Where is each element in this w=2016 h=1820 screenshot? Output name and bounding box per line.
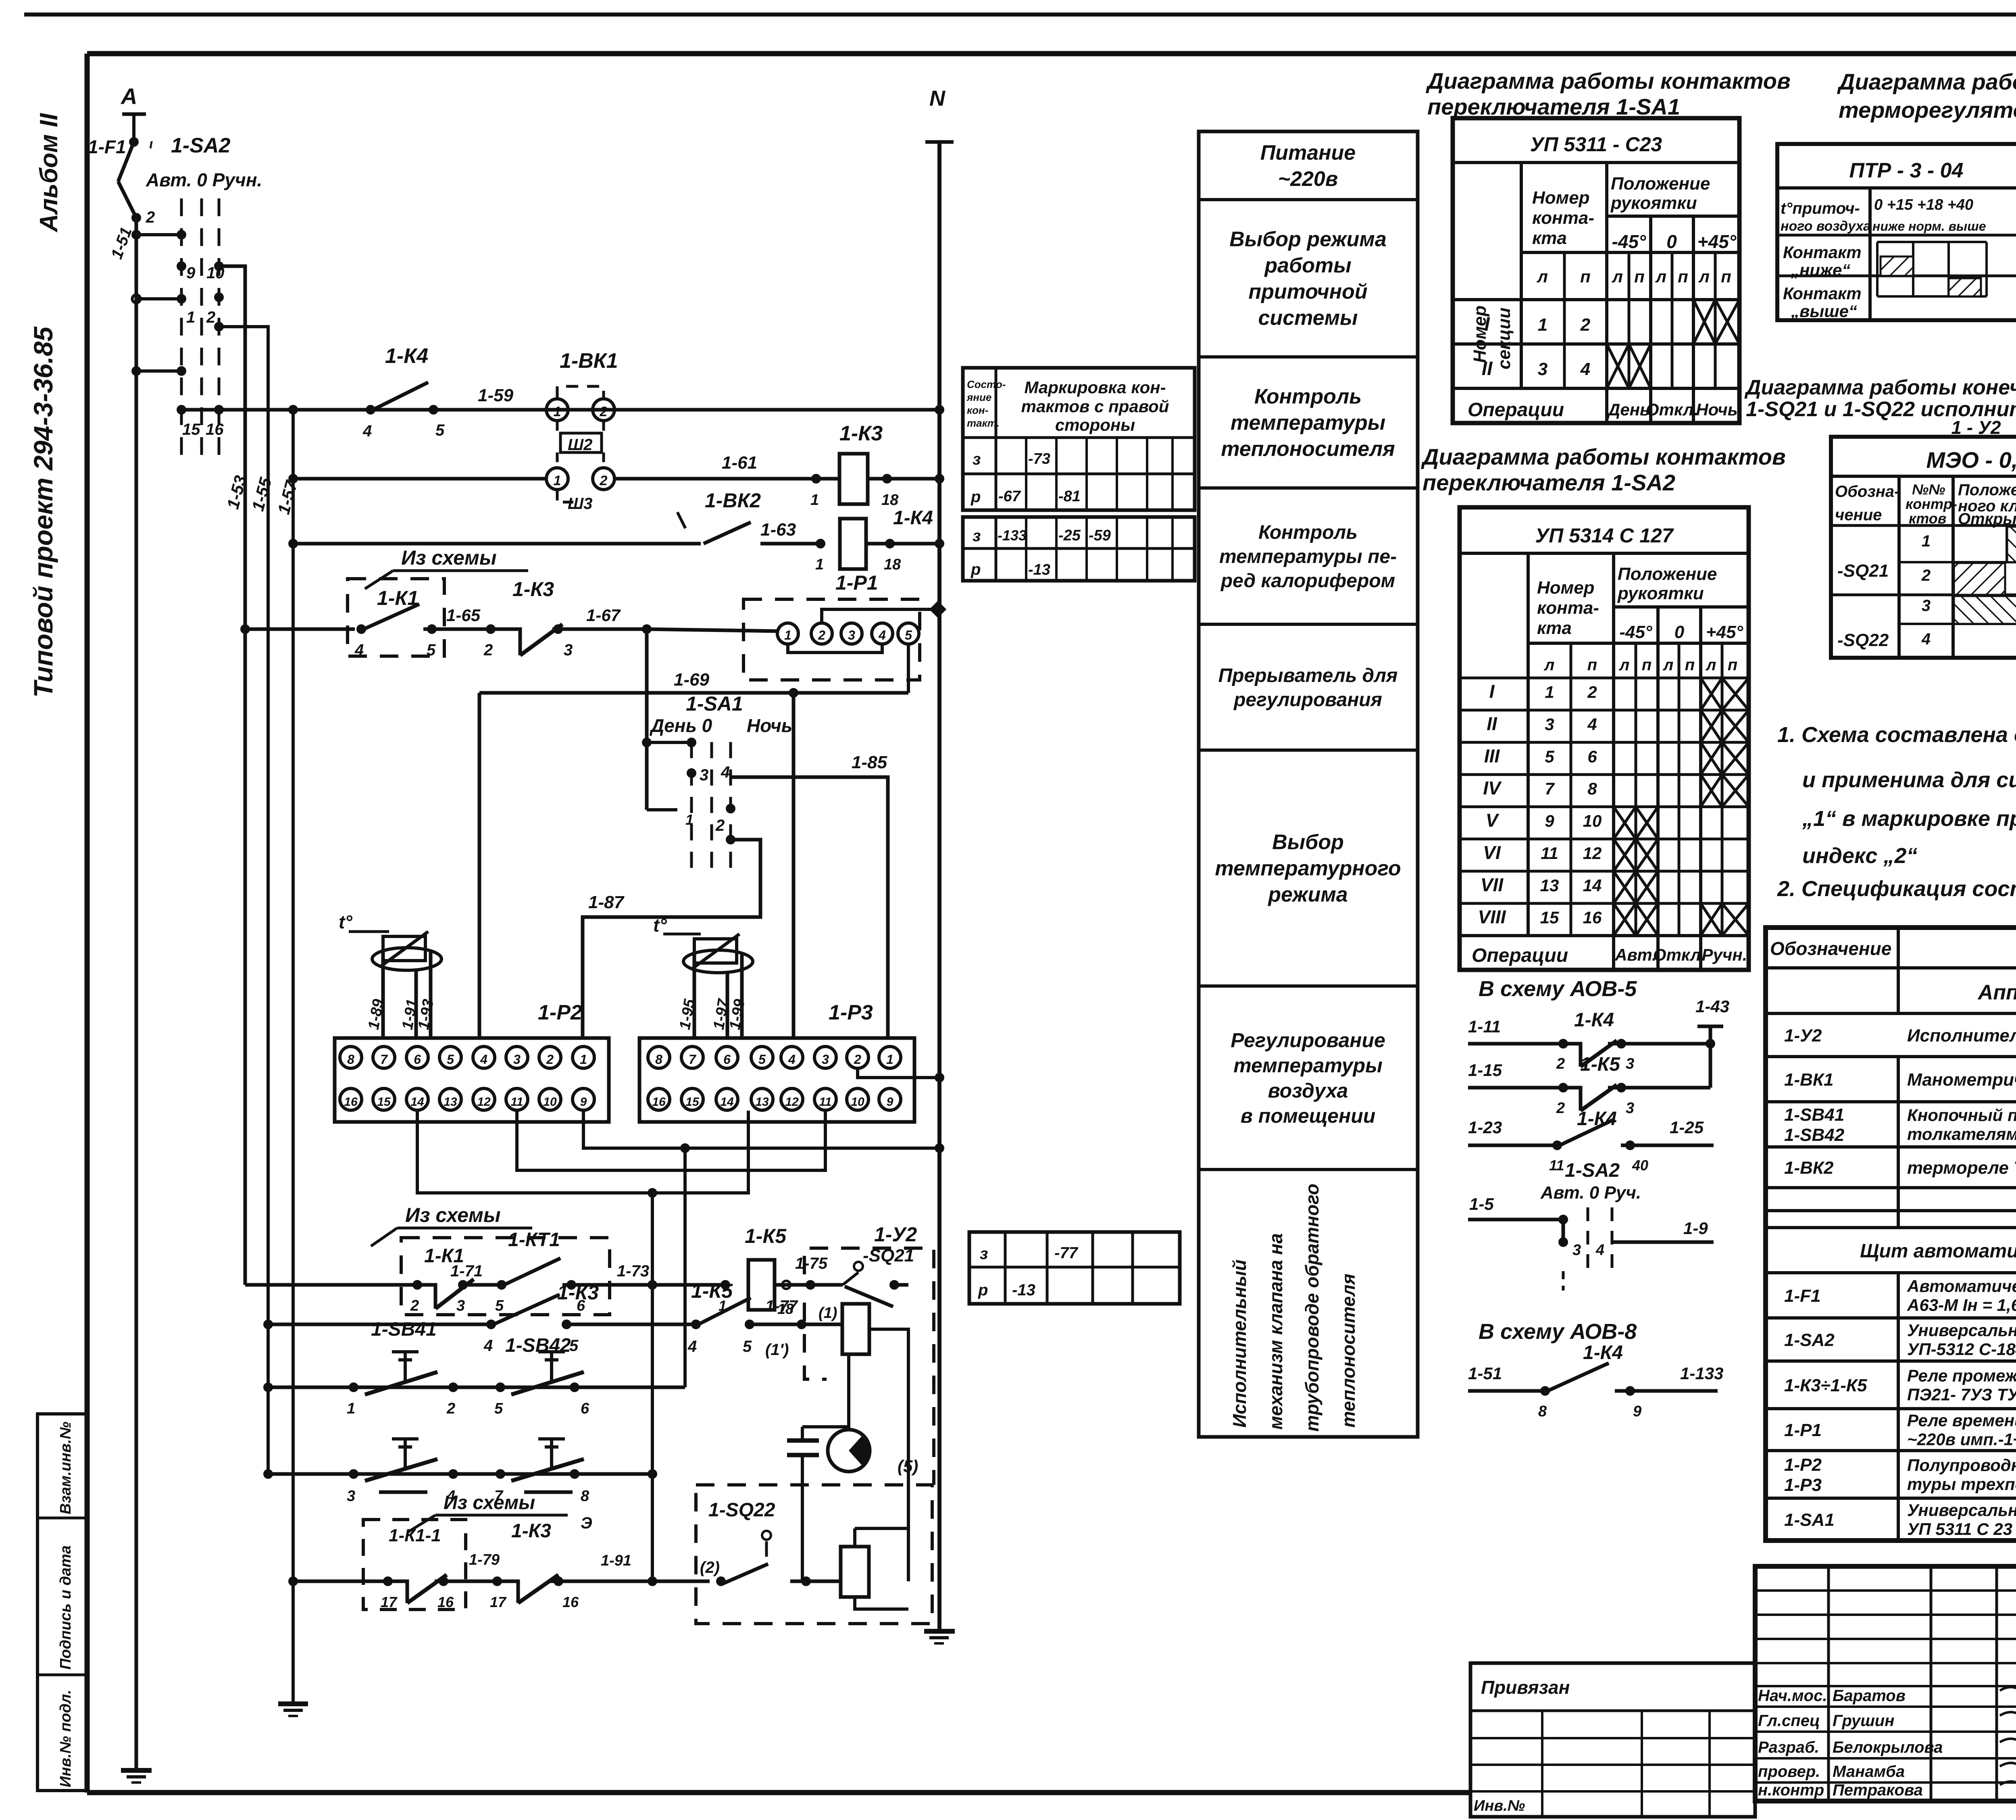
svg-text:13: 13 [444, 1095, 457, 1109]
svg-text:1: 1 [784, 628, 791, 642]
svg-text:4: 4 [788, 1052, 796, 1067]
svg-text:17: 17 [490, 1594, 507, 1610]
circuit breaker 1-F1 [118, 142, 134, 181]
svg-text:1-К4: 1-К4 [1583, 1342, 1623, 1363]
svg-text:Автоматический выключатель: Автоматический выключатель [1907, 1277, 2016, 1296]
svg-text:1-ВК1: 1-ВК1 [560, 349, 618, 373]
svg-text:1-79: 1-79 [469, 1551, 500, 1568]
svg-text:1-63: 1-63 [760, 520, 796, 540]
wire row push buttons SB41/SB42 (NO) [268, 1386, 685, 1389]
svg-text:11: 11 [1541, 844, 1558, 863]
svg-text:УП 5311 - С23: УП 5311 - С23 [1530, 133, 1662, 156]
svg-text:температуры: температуры [1231, 411, 1385, 435]
svg-text:Аппаратура по месту: Аппаратура по месту [1977, 981, 2016, 1004]
svg-text:Регулирование: Регулирование [1231, 1029, 1385, 1051]
svg-text:День: День [1607, 400, 1650, 419]
svg-text:п: п [1728, 656, 1737, 674]
svg-text:-77: -77 [1054, 1244, 1079, 1262]
svg-text:-25: -25 [1058, 527, 1081, 544]
table ПТР-3-04 (first) [1777, 144, 2016, 320]
svg-text:Баратов: Баратов [1833, 1687, 1906, 1705]
wire linking terminals 11-11 [517, 1111, 825, 1170]
svg-text:15: 15 [1540, 908, 1559, 927]
svg-text:рукоятки: рукоятки [1617, 584, 1704, 603]
svg-text:Авт. 0 Руч.: Авт. 0 Руч. [1540, 1183, 1641, 1203]
svg-text:0: 0 [1666, 231, 1677, 252]
svg-text:3: 3 [1922, 597, 1931, 615]
svg-text:п: п [1721, 267, 1731, 286]
svg-text:14: 14 [410, 1095, 424, 1109]
svg-text:-13: -13 [1028, 561, 1050, 578]
svg-text:УП-5312 С-184: УП-5312 С-184 [1907, 1340, 2016, 1359]
contact marking table B [963, 517, 1195, 581]
svg-text:УП 5311 С 23: УП 5311 С 23 [1907, 1520, 2012, 1539]
N bus ground [924, 1629, 955, 1634]
svg-text:5: 5 [495, 1297, 504, 1314]
relay contact box 1-K1 (dashed) [348, 579, 444, 656]
svg-text:~220в: ~220в [1278, 167, 1338, 191]
svg-text:4: 4 [687, 1338, 697, 1355]
hatch bars МЭО [2007, 527, 2016, 562]
svg-text:4: 4 [1587, 715, 1597, 734]
svg-text:Разраб.: Разраб. [1758, 1739, 1819, 1756]
SA2 contact row 15/16 [177, 405, 186, 415]
svg-text:1-SA2: 1-SA2 [1565, 1160, 1620, 1181]
svg-text:2: 2 [206, 309, 215, 326]
actuator winding (lower) [841, 1547, 869, 1597]
svg-text:3: 3 [848, 628, 855, 642]
contact marking table A (Маркировка контактов с правой стороны) [963, 368, 1195, 510]
svg-text:3: 3 [822, 1052, 829, 1067]
svg-text:регулирования: регулирования [1233, 689, 1382, 711]
SA2 contact row 1/2 [136, 297, 181, 300]
svg-text:чение: чение [1835, 506, 1882, 524]
svg-text:Манамба: Манамба [1833, 1763, 1905, 1780]
vertical wire 1-57 [292, 410, 295, 1704]
X marks row I (+45) [1693, 300, 1715, 344]
svg-text:1-К4: 1-К4 [1574, 1009, 1614, 1031]
svg-text:4: 4 [362, 422, 372, 440]
svg-text:1-73: 1-73 [617, 1262, 649, 1280]
svg-text:Подпись и дата: Подпись и дата [57, 1545, 74, 1670]
svg-text:Операции: Операции [1468, 399, 1564, 421]
svg-text:t°: t° [339, 911, 352, 932]
svg-text:IV: IV [1483, 778, 1502, 798]
actuator motor [828, 1430, 870, 1472]
svg-text:работы: работы [1264, 254, 1351, 277]
svg-text:Диаграмма работы контактов: Диаграмма работы контактов [1837, 69, 2016, 94]
svg-text:Гл.спец: Гл.спец [1758, 1712, 1820, 1730]
svg-text:Универсальный переключатель: Универсальный переключатель [1907, 1321, 2016, 1340]
svg-text:Маркировка кон-: Маркировка кон- [1024, 378, 1166, 397]
svg-text:1-К3÷1-К5: 1-К3÷1-К5 [1784, 1376, 1867, 1395]
svg-text:(1'): (1') [765, 1341, 789, 1359]
svg-text:1-SB41: 1-SB41 [371, 1319, 437, 1340]
svg-text:2: 2 [146, 208, 155, 226]
function description column [1199, 131, 1418, 1437]
svg-text:12: 12 [477, 1095, 491, 1109]
svg-text:индекс „2“: индекс „2“ [1802, 844, 1917, 868]
svg-text:5: 5 [427, 641, 436, 659]
svg-text:Грушин: Грушин [1833, 1712, 1894, 1730]
svg-text:4: 4 [354, 641, 364, 659]
svg-text:4: 4 [480, 1052, 487, 1067]
svg-text:температуры пе-: температуры пе- [1219, 546, 1397, 567]
svg-text:1-ВК2: 1-ВК2 [705, 489, 761, 512]
svg-text:Альбом II: Альбом II [35, 113, 63, 233]
svg-text:14: 14 [720, 1095, 734, 1109]
svg-text:1-85: 1-85 [852, 753, 887, 772]
svg-text:8: 8 [655, 1052, 662, 1067]
svg-text:17: 17 [381, 1594, 398, 1610]
svg-text:л: л [1537, 267, 1548, 286]
svg-text:13: 13 [755, 1095, 769, 1109]
vertical wire from node 2847 [683, 1148, 687, 1387]
svg-text:1-Р2: 1-Р2 [538, 1001, 582, 1024]
svg-text:1-Р3: 1-Р3 [1784, 1475, 1822, 1495]
svg-text:п: п [1634, 267, 1645, 286]
svg-text:4: 4 [1580, 359, 1590, 379]
svg-text:3: 3 [1626, 1100, 1634, 1117]
svg-text:1-SA2: 1-SA2 [1784, 1330, 1835, 1350]
svg-text:3: 3 [513, 1052, 521, 1067]
svg-text:провер.: провер. [1758, 1763, 1820, 1780]
wire row 1 (to N) [181, 408, 939, 412]
svg-text:р: р [978, 1281, 988, 1299]
svg-text:воздуха: воздуха [1268, 1079, 1348, 1102]
svg-text:1-23: 1-23 [1468, 1118, 1502, 1137]
drawing frame [87, 51, 2016, 56]
svg-text:(1): (1) [818, 1305, 837, 1322]
svg-text:Белокрылова: Белокрылова [1833, 1739, 1943, 1756]
svg-text:16: 16 [206, 421, 224, 438]
svg-text:2: 2 [410, 1297, 419, 1314]
svg-text:16: 16 [562, 1594, 579, 1610]
relay contact box 1-K1-1 (dashed) [363, 1520, 466, 1609]
svg-text:трубопроводе обратного: трубопроводе обратного [1302, 1184, 1322, 1432]
svg-text:л: л [1544, 656, 1555, 674]
svg-text:-SQ21: -SQ21 [1837, 561, 1889, 581]
svg-text:Откл.: Откл. [1653, 945, 1706, 964]
svg-text:Авт.: Авт. [1614, 945, 1657, 964]
svg-text:Из схемы: Из схемы [444, 1492, 535, 1514]
svg-text:15: 15 [685, 1095, 700, 1109]
svg-text:4: 4 [483, 1337, 493, 1355]
svg-text:18: 18 [884, 556, 901, 573]
svg-text:1-SQ22: 1-SQ22 [708, 1499, 775, 1521]
svg-text:такт.: такт. [967, 417, 1000, 429]
svg-text:н.контр: н.контр [1758, 1781, 1824, 1799]
svg-text:10: 10 [543, 1095, 557, 1109]
svg-text:конта-: конта- [1532, 208, 1594, 228]
svg-text:2: 2 [1921, 567, 1931, 584]
svg-text:1: 1 [886, 1052, 893, 1067]
svg-text:5: 5 [758, 1052, 766, 1067]
svg-text:1-87: 1-87 [588, 892, 625, 912]
table УП 5311-С23 [1453, 118, 1739, 423]
svg-text:2: 2 [715, 817, 725, 834]
svg-text:5: 5 [435, 421, 445, 439]
svg-text:1-SA2: 1-SA2 [171, 134, 230, 157]
svg-text:Ручн.: Ручн. [1702, 945, 1747, 964]
svg-text:1-F1: 1-F1 [88, 136, 126, 157]
штамп left grid [1827, 1566, 1830, 1801]
svg-text:t°приточ-: t°приточ- [1781, 200, 1860, 217]
svg-text:1-F1: 1-F1 [1784, 1286, 1820, 1306]
svg-text:10: 10 [1583, 811, 1602, 830]
svg-text:5: 5 [494, 1400, 503, 1417]
svg-text:УП 5314 С 127: УП 5314 С 127 [1535, 524, 1674, 547]
svg-text:Щит автоматики приточной си: Щит автоматики приточной системы Пр1 (Пр… [1860, 1240, 2016, 1262]
svg-text:А: А [120, 83, 137, 109]
svg-text:-45°: -45° [1619, 622, 1652, 642]
svg-text:-67: -67 [998, 488, 1021, 505]
svg-text:(5): (5) [898, 1457, 918, 1476]
wire from contact 10 to vertical 1-53 [219, 266, 245, 269]
svg-text:1-75: 1-75 [795, 1255, 828, 1272]
svg-text:2: 2 [1580, 315, 1591, 335]
svg-text:0 +15 +18 +40: 0 +15 +18 +40 [1874, 196, 1973, 213]
svg-text:стороны: стороны [1055, 415, 1135, 434]
svg-text:контр-: контр- [1906, 496, 1957, 512]
svg-text:Ночь: Ночь [1696, 400, 1737, 419]
svg-text:1-133: 1-133 [1680, 1364, 1723, 1383]
svg-text:-133: -133 [998, 527, 1027, 544]
svg-text:приточной: приточной [1248, 280, 1367, 304]
svg-text:ниже норм. выше: ниже норм. выше [1872, 219, 1986, 233]
svg-text:кон-: кон- [967, 404, 988, 416]
wire P3 terminal 2 to N bus [858, 1069, 939, 1078]
svg-text:3: 3 [1545, 715, 1554, 734]
svg-text:в помещении: в помещении [1241, 1105, 1376, 1127]
svg-text:1-59: 1-59 [478, 386, 514, 405]
svg-text:-SQ22: -SQ22 [1837, 630, 1889, 650]
svg-text:1-Р1: 1-Р1 [1784, 1420, 1822, 1440]
svg-text:л: л [1655, 267, 1666, 286]
svg-text:1-К3: 1-К3 [511, 1520, 551, 1542]
svg-text:1-К1-1: 1-К1-1 [389, 1526, 441, 1545]
svg-text:2: 2 [483, 641, 493, 659]
svg-text:6: 6 [1587, 747, 1597, 766]
svg-text:День 0: День 0 [649, 715, 712, 736]
svg-text:кта: кта [1537, 618, 1572, 638]
svg-text:3: 3 [564, 641, 573, 659]
svg-text:13: 13 [1540, 876, 1559, 895]
привязан block [1470, 1663, 1755, 1817]
svg-text:и применима для системы п-: и применима для системы п-2 с заменой ин… [1802, 768, 2016, 792]
svg-text:9: 9 [580, 1095, 587, 1109]
svg-text:1-Р1: 1-Р1 [835, 571, 878, 594]
svg-text:переключателя 1-SA2: переключателя 1-SA2 [1422, 470, 1675, 495]
svg-text:Выбор: Выбор [1272, 831, 1344, 854]
svg-text:Кнопочный пост управления П: Кнопочный пост управления ПКЕ-212-2 с [1907, 1106, 2016, 1125]
svg-text:режима: режима [1267, 883, 1347, 907]
contact marking table C [969, 1232, 1180, 1304]
svg-text:6: 6 [723, 1052, 731, 1067]
left margin stamp column (Инв.№ подл / Подпись и дата / Взам.инв.№) [37, 1414, 87, 1791]
svg-text:Прерыватель для: Прерыватель для [1218, 665, 1398, 686]
SA2 tie row [136, 369, 181, 373]
svg-text:Номер: Номер [1537, 578, 1595, 598]
time relay coil 1-P1 [816, 539, 825, 548]
svg-text:4: 4 [1921, 630, 1931, 648]
svg-text:л: л [1663, 656, 1674, 674]
svg-text:VIII: VIII [1478, 907, 1506, 928]
svg-text:Ш3: Ш3 [568, 495, 592, 513]
wire row contacts 1-K3 / 1-K5 [268, 1323, 491, 1326]
svg-text:Диаграмма работы контактов: Диаграмма работы контактов [1426, 68, 1791, 94]
time relay contact block 1-P1 (dashed) [744, 599, 920, 680]
svg-text:Номер: Номер [1532, 188, 1590, 208]
svg-text:11: 11 [510, 1095, 523, 1109]
svg-text:14: 14 [1583, 876, 1602, 895]
svg-text:1: 1 [580, 1052, 587, 1067]
svg-text:1-9: 1-9 [1683, 1219, 1708, 1238]
svg-text:1-15: 1-15 [1468, 1061, 1502, 1080]
svg-text:0: 0 [1674, 622, 1685, 642]
svg-text:9: 9 [186, 264, 196, 282]
svg-text:9: 9 [887, 1095, 893, 1109]
vertical wire 1-55 [267, 327, 270, 1474]
svg-text:Контроль: Контроль [1258, 522, 1358, 543]
svg-text:3: 3 [1572, 1242, 1581, 1259]
svg-text:1-43: 1-43 [1695, 997, 1729, 1016]
svg-text:Нач.мос.: Нач.мос. [1758, 1687, 1827, 1705]
svg-text:4: 4 [1595, 1242, 1604, 1259]
svg-text:А63-М Iн = 1,6 А , Iотс =: А63-М Iн = 1,6 А , Iотс = 1,3 Iн [1907, 1296, 2016, 1315]
svg-text:1-SA1: 1-SA1 [1784, 1510, 1835, 1530]
svg-text:Из схемы: Из схемы [405, 1204, 501, 1226]
svg-text:1-Р3: 1-Р3 [829, 1001, 873, 1024]
svg-text:-73: -73 [1028, 450, 1050, 467]
svg-text:-59: -59 [1089, 527, 1111, 544]
svg-text:Ш2: Ш2 [568, 436, 592, 454]
svg-text:8: 8 [581, 1488, 589, 1505]
svg-text:t°: t° [653, 915, 667, 936]
svg-text:16: 16 [1583, 908, 1602, 927]
svg-text:п: п [1685, 656, 1695, 674]
svg-text:2: 2 [1556, 1100, 1565, 1117]
svg-text:-13: -13 [1012, 1281, 1035, 1299]
svg-text:II: II [1487, 713, 1497, 734]
contact 1-K4 (NO) [366, 405, 375, 415]
svg-text:3: 3 [456, 1297, 465, 1314]
svg-text:Из схемы: Из схемы [401, 546, 497, 569]
vertical feed to 1-P3 [792, 693, 796, 1038]
wire row below strips (to N) [583, 1111, 939, 1148]
svg-text:1-SB41: 1-SB41 [1784, 1105, 1844, 1125]
svg-text:1-К5: 1-К5 [745, 1225, 787, 1247]
svg-text:7: 7 [380, 1052, 388, 1067]
svg-text:Э: Э [581, 1514, 592, 1532]
svg-text:Обозначение: Обозначение [1770, 938, 1891, 959]
ground for bus A [121, 1768, 152, 1773]
svg-text:2: 2 [600, 404, 608, 419]
svg-text:5: 5 [743, 1338, 752, 1355]
svg-text:тактов с правой: тактов с правой [1021, 397, 1169, 416]
svg-text:Полупроводниковый регулятор: Полупроводниковый регулятор темпера- [1907, 1456, 2016, 1475]
svg-text:Типовой проект 294-3-36.85: Типовой проект 294-3-36.85 [28, 326, 58, 698]
svg-text:1-У2: 1-У2 [874, 1223, 917, 1246]
svg-text:Контроль: Контроль [1254, 385, 1362, 409]
X marks 1-SA2 table [1701, 678, 1722, 710]
svg-text:1-71: 1-71 [450, 1262, 483, 1280]
svg-text:1: 1 [554, 473, 561, 488]
svg-text:1-77: 1-77 [765, 1297, 798, 1315]
svg-text:1-К3: 1-К3 [512, 578, 554, 600]
svg-text:8: 8 [1538, 1403, 1547, 1420]
wire row 3 [293, 542, 701, 546]
svg-text:толкателями красного и черног: толкателями красного и черного цвета [1907, 1125, 2016, 1144]
svg-text:V: V [1486, 810, 1500, 831]
svg-text:п: п [1587, 656, 1597, 674]
wire 1-87 [583, 840, 760, 1038]
svg-text:~220в имп.-1÷10сек. пауз.=10: ~220в имп.-1÷10сек. пауз.=10÷100 сек. [1907, 1430, 2016, 1449]
svg-text:2: 2 [1587, 683, 1597, 702]
svg-text:6: 6 [414, 1052, 421, 1067]
svg-text:Универсальный переключатель: Универсальный переключатель [1907, 1501, 2016, 1520]
svg-text:3: 3 [700, 766, 708, 784]
node A phase terminal [122, 113, 146, 116]
wire 1-69 [479, 691, 908, 695]
title block (штамп) [1755, 1566, 2016, 1801]
svg-text:МЭО - 0,63: МЭО - 0,63 [1926, 447, 2016, 473]
svg-text:+45°: +45° [1706, 622, 1743, 642]
svg-text:Диаграмма работы контактов: Диаграмма работы контактов [1421, 444, 1786, 469]
svg-text:Питание: Питание [1260, 141, 1356, 165]
svg-text:1-67: 1-67 [586, 606, 621, 625]
svg-text:Реле времени ВЛ-40: Реле времени ВЛ-40 [1907, 1411, 2016, 1430]
svg-text:1-SB42: 1-SB42 [1784, 1125, 1845, 1145]
bus A vertical wire [135, 218, 138, 1770]
svg-text:Ночь: Ночь [747, 715, 792, 736]
svg-text:16: 16 [437, 1594, 454, 1610]
wire from contact 2 to vertical 1-55 [219, 327, 268, 330]
svg-text:термореле ТР-16-02: термореле ТР-16-02 [1907, 1158, 2016, 1178]
vertical wire 1-53 [244, 266, 247, 1285]
svg-text:16: 16 [652, 1095, 666, 1109]
svg-text:1-ВК1: 1-ВК1 [1784, 1070, 1833, 1090]
svg-text:1-SA1: 1-SA1 [686, 692, 743, 715]
svg-text:1: 1 [810, 492, 819, 509]
svg-text:ред калорифером: ред калорифером [1220, 570, 1395, 592]
svg-text:5: 5 [447, 1052, 454, 1067]
svg-text:1-К5: 1-К5 [1580, 1054, 1620, 1075]
svg-text:2: 2 [854, 1052, 861, 1067]
svg-text:1-КТ1: 1-КТ1 [508, 1229, 560, 1251]
svg-text:6: 6 [581, 1400, 589, 1417]
svg-text:Инв.№ подл.: Инв.№ подл. [57, 1690, 74, 1787]
svg-text:1-ВК2: 1-ВК2 [1784, 1158, 1834, 1178]
wire 1-85 [731, 777, 888, 1038]
vertical wire to lower contacts [651, 1193, 654, 1581]
component list table [1766, 928, 2016, 1541]
svg-text:1-К4: 1-К4 [385, 344, 428, 368]
svg-text:температуры: температуры [1233, 1054, 1383, 1077]
svg-text:Контакт: Контакт [1783, 284, 1862, 303]
svg-text:2: 2 [1556, 1055, 1565, 1072]
svg-text:л: л [1698, 267, 1710, 286]
svg-text:2: 2 [818, 628, 825, 642]
svg-text:1-К4: 1-К4 [1577, 1108, 1617, 1130]
svg-text:Операции: Операции [1472, 945, 1568, 966]
svg-text:ного воздуха: ного воздуха [1781, 219, 1871, 234]
svg-text:Петракова: Петракова [1833, 1781, 1923, 1799]
svg-text:11: 11 [819, 1095, 831, 1109]
svg-text:системы: системы [1258, 306, 1358, 330]
svg-text:п: п [1642, 656, 1652, 674]
svg-text:5: 5 [905, 628, 912, 642]
